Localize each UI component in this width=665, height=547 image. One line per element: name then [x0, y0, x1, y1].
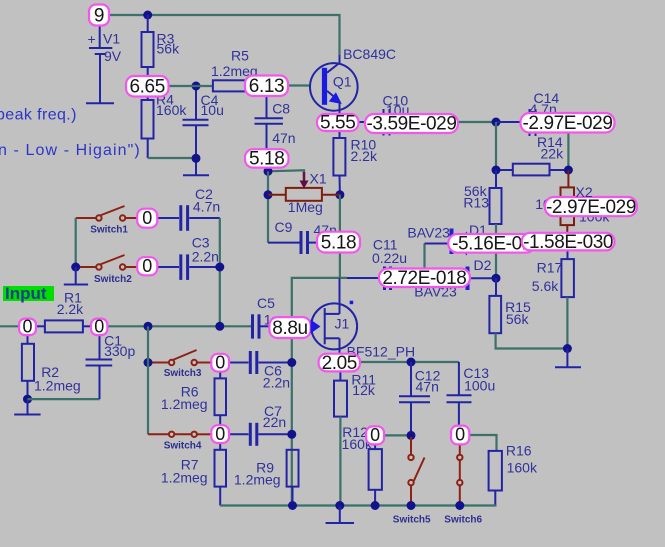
wire 6.65 node to R5 — [169, 85, 213, 87]
svg-text:-2.97E-029: -2.97E-029 — [546, 197, 636, 218]
svg-text:2.05: 2.05 — [322, 353, 357, 374]
junction C14 node — [492, 118, 501, 127]
capacitor C1 — [86, 333, 136, 400]
capacitor C2 — [156, 186, 220, 231]
junction R12 bottom — [371, 501, 380, 510]
svg-text:J1: J1 — [335, 316, 350, 332]
junction Switch5 bottom — [407, 501, 416, 510]
junction X1 left — [264, 190, 273, 199]
node 9 junction dot — [143, 11, 152, 20]
svg-text:X2: X2 — [576, 184, 593, 200]
wire Switch1 left down to Switch2 left — [75, 218, 77, 267]
ground (C4) — [183, 174, 209, 176]
resistor R2 — [22, 335, 81, 399]
svg-text:C5: C5 — [257, 295, 275, 311]
capacitor C8 — [255, 96, 296, 150]
switch Switch6 — [444, 444, 482, 525]
svg-text:BC849C: BC849C — [343, 46, 396, 62]
svg-text:0: 0 — [142, 208, 152, 228]
resistor R1 — [36, 290, 91, 333]
svg-text:0: 0 — [215, 424, 225, 444]
junction C12/Switch5 — [407, 431, 416, 440]
switch Switch4 — [148, 432, 211, 452]
ground (Switch2) — [64, 267, 88, 285]
switch Switch5 — [393, 437, 431, 525]
transistor Q1 — [310, 46, 396, 116]
svg-text:Switch4: Switch4 — [164, 441, 202, 452]
svg-text:12k: 12k — [352, 382, 376, 398]
svg-text:47n: 47n — [416, 379, 439, 395]
wire input row down to Switch4 — [147, 326, 149, 434]
probe label 0 (R12) — [366, 425, 384, 445]
junction C4 bottom — [192, 154, 201, 163]
svg-text:Q1: Q1 — [333, 74, 352, 90]
svg-text:-5.16E-01: -5.16E-01 — [452, 234, 532, 255]
svg-text:0: 0 — [455, 425, 465, 445]
probe label 5.55 — [317, 113, 359, 134]
svg-text:9: 9 — [94, 6, 104, 27]
svg-text:peak freq.): peak freq.) — [0, 107, 77, 124]
svg-text:Switch2: Switch2 — [94, 274, 132, 285]
capacitor C4 — [183, 86, 224, 175]
svg-text:56k: 56k — [506, 311, 530, 327]
svg-text:160k: 160k — [156, 102, 187, 118]
junction below 5.18 — [264, 167, 273, 176]
wire 2.05 node to C13 top — [360, 361, 459, 363]
probe label 0 (Switch1) — [137, 208, 157, 228]
junction C3 right — [215, 263, 224, 272]
svg-text:0: 0 — [142, 256, 152, 276]
resistor R3 — [142, 15, 181, 78]
probe label 2.05 — [319, 353, 360, 374]
probe label 8.8u — [269, 317, 310, 339]
wire R13 bottom to D2 node — [495, 224, 497, 278]
svg-text:2.2k: 2.2k — [57, 301, 84, 317]
svg-text:22k: 22k — [541, 145, 565, 161]
svg-text:2.2k: 2.2k — [351, 148, 378, 164]
probe label 6.13 — [245, 76, 288, 98]
svg-text:1.2meg: 1.2meg — [161, 470, 208, 486]
wire C14 right down to R14 right — [567, 122, 569, 170]
capacitor C11 — [347, 237, 440, 291]
probe label -2.97E-029 (C14) — [521, 113, 615, 134]
resistor R9 — [234, 450, 299, 506]
wire C14 node down to R14 left — [495, 122, 497, 170]
svg-text:0: 0 — [94, 317, 104, 337]
svg-text:5.18: 5.18 — [321, 232, 356, 253]
probe label 0 (Switch3) — [211, 352, 229, 372]
resistor R11 — [334, 371, 376, 416]
svg-text:4.7n: 4.7n — [193, 199, 220, 215]
wire base of Q1 — [288, 84, 310, 86]
wire R2 bottom to C1 bottom — [28, 398, 100, 400]
svg-text:-2.97E-029: -2.97E-029 — [522, 113, 612, 134]
wire 5.18 node down to C9 — [267, 171, 269, 242]
svg-text:X1: X1 — [310, 171, 327, 187]
svg-text:8.8u: 8.8u — [272, 318, 307, 339]
svg-text:6.13: 6.13 — [249, 76, 284, 97]
svg-text:2.2n: 2.2n — [192, 249, 219, 265]
J1 gate arrow — [311, 320, 321, 334]
resistor R17 — [532, 250, 574, 297]
svg-text:0.22u: 0.22u — [372, 250, 407, 266]
ground (bottom) — [326, 506, 354, 524]
switch Switch3 — [148, 350, 211, 379]
probe label -1.58E-030 — [522, 232, 615, 253]
resistor R7 — [161, 443, 226, 506]
capacitor C14 (mostly hidden by label box) — [496, 90, 568, 136]
svg-text:D2: D2 — [474, 257, 492, 273]
junction input row x148 — [144, 322, 153, 331]
capacitor C12 — [399, 362, 441, 435]
svg-text:1.2meg: 1.2meg — [234, 472, 281, 488]
junction R14 right — [564, 166, 573, 175]
svg-text:5.18: 5.18 — [249, 149, 284, 170]
svg-text:56k: 56k — [157, 41, 181, 57]
probe label -2.97E-029 (X2) — [545, 197, 637, 218]
wire C6/C7 node up-corner to C11 — [292, 278, 347, 506]
wire R12 label node to C12 node — [384, 434, 411, 436]
capacitor C9 — [268, 219, 337, 254]
resistor R6 — [161, 372, 226, 426]
junction Switch6 bottom — [455, 501, 464, 510]
svg-text:100u: 100u — [464, 378, 495, 394]
svg-text:22n: 22n — [263, 414, 286, 430]
probe label 0 (C13) — [451, 425, 469, 445]
capacitor C3 — [156, 234, 220, 280]
junction ground node right — [563, 344, 572, 353]
wire R4 bottom to C4 bottom — [148, 157, 196, 159]
node Input label — [3, 284, 54, 303]
junction R14 left — [492, 166, 501, 175]
probe label 0 (input right) — [91, 317, 107, 337]
wire input row right of R1 — [107, 325, 251, 327]
junction C4 top — [192, 82, 201, 91]
ground (R2) — [14, 399, 40, 414]
diode D2 (mostly hidden by label box) — [414, 257, 496, 300]
switch Switch1 — [76, 206, 138, 236]
probe label 9 — [89, 5, 109, 27]
wire C2 right down to input row — [219, 218, 221, 326]
svg-text:2.72E-018: 2.72E-018 — [382, 268, 466, 289]
probe label 5.18 (C9) — [317, 232, 360, 254]
ground (V1) — [86, 102, 114, 104]
junction D2 cathode node — [492, 274, 501, 283]
svg-text:2.2n: 2.2n — [263, 375, 290, 391]
junction C7 right — [287, 430, 296, 439]
junction Switch3 left — [144, 358, 153, 367]
svg-text:Input: Input — [5, 284, 47, 303]
wire bottom rail — [220, 504, 496, 506]
svg-text:V1: V1 — [103, 31, 120, 47]
probe label 2.72E-018 — [379, 268, 470, 289]
battery V1 — [88, 25, 122, 103]
svg-text:47n: 47n — [272, 130, 295, 146]
svg-text:6.65: 6.65 — [130, 77, 165, 98]
resistor R5 — [211, 48, 258, 92]
svg-text:0: 0 — [215, 352, 225, 372]
ground (right) — [555, 349, 581, 368]
wire node 9 to Q1 collector top — [109, 15, 340, 55]
junction Switch2 left — [71, 263, 80, 272]
resistor R13 — [463, 170, 501, 224]
probe label 6.65 — [126, 76, 169, 98]
potentiometer X1 — [268, 171, 340, 216]
svg-text:5.55: 5.55 — [320, 113, 355, 134]
wire C13 label node to R16 top — [469, 435, 496, 451]
probe label 0 (input left) — [19, 317, 36, 337]
node 5.18 wire to X1 wiper — [268, 170, 304, 176]
junction C6 right — [287, 358, 296, 367]
svg-text:R5: R5 — [231, 48, 249, 64]
probe label 0 (Switch2) — [137, 256, 157, 276]
junction X1 right — [335, 190, 344, 199]
junction ground bottom — [335, 501, 344, 510]
svg-text:-3.59E-029: -3.59E-029 — [366, 114, 456, 135]
transistor J1 — [311, 278, 415, 359]
svg-text:Switch6: Switch6 — [444, 514, 482, 525]
svg-text:C8: C8 — [272, 101, 290, 117]
svg-text:160k: 160k — [507, 459, 538, 475]
wire R15 bottom to ground node — [496, 333, 568, 348]
svg-text:R13: R13 — [463, 195, 489, 211]
junction R2 bottom — [23, 395, 32, 404]
resistor R12 — [342, 424, 382, 506]
resistor R14 — [496, 134, 568, 175]
svg-text:-1.58E-030: -1.58E-030 — [523, 232, 613, 253]
svg-text:0: 0 — [22, 317, 32, 337]
junction input row x220 — [215, 322, 224, 331]
svg-text:n - Low - Higain"): n - Low - Higain") — [0, 142, 141, 159]
svg-text:R16: R16 — [506, 443, 532, 459]
probe label -3.59E-029 — [365, 114, 458, 135]
resistor R16 — [489, 443, 538, 506]
svg-text:Switch3: Switch3 — [164, 368, 202, 379]
svg-text:0: 0 — [370, 425, 380, 445]
capacitor C13 — [447, 362, 496, 426]
svg-text:BAV23: BAV23 — [407, 225, 450, 241]
junction R9 bottom — [288, 501, 297, 510]
diode D1 (mostly hidden by label box) — [407, 222, 496, 269]
probe label 0 (Switch4) — [211, 424, 229, 444]
wire input row — [0, 325, 19, 327]
junction C12 top — [407, 358, 416, 367]
svg-text:10u: 10u — [201, 102, 224, 118]
svg-text:9V: 9V — [104, 48, 122, 64]
svg-text:C9: C9 — [275, 219, 293, 235]
resistor R10 — [333, 129, 378, 195]
resistor R4 — [142, 91, 188, 158]
resistor R15 — [489, 278, 531, 333]
switch Switch2 — [76, 255, 138, 285]
svg-text:Switch1: Switch1 — [90, 225, 128, 236]
capacitor C7 — [229, 403, 292, 446]
svg-text:+: + — [88, 31, 96, 47]
probe label -5.16E-019 — [448, 234, 535, 255]
svg-text:1Meg: 1Meg — [288, 199, 323, 215]
wire C10 to C14 node — [458, 121, 496, 123]
svg-text:1.2meg: 1.2meg — [34, 378, 81, 394]
wire R11 bottom to bottom rail — [339, 417, 341, 506]
potentiometer X2 — [535, 170, 610, 233]
probe label 5.18 (C8) — [245, 149, 289, 170]
wire X1 right to J1 drain — [339, 195, 341, 278]
capacitor C10 (mostly hidden by label box) — [340, 93, 431, 136]
capacitor C5 — [253, 295, 280, 339]
svg-text:5.6k: 5.6k — [532, 278, 559, 294]
svg-text:1.2meg: 1.2meg — [161, 396, 208, 412]
svg-text:R17: R17 — [537, 260, 563, 276]
capacitor C6 — [229, 351, 292, 391]
svg-text:Switch5: Switch5 — [393, 514, 431, 525]
svg-text:330p: 330p — [104, 343, 135, 359]
wire R17 bottom to ground node — [566, 297, 568, 348]
